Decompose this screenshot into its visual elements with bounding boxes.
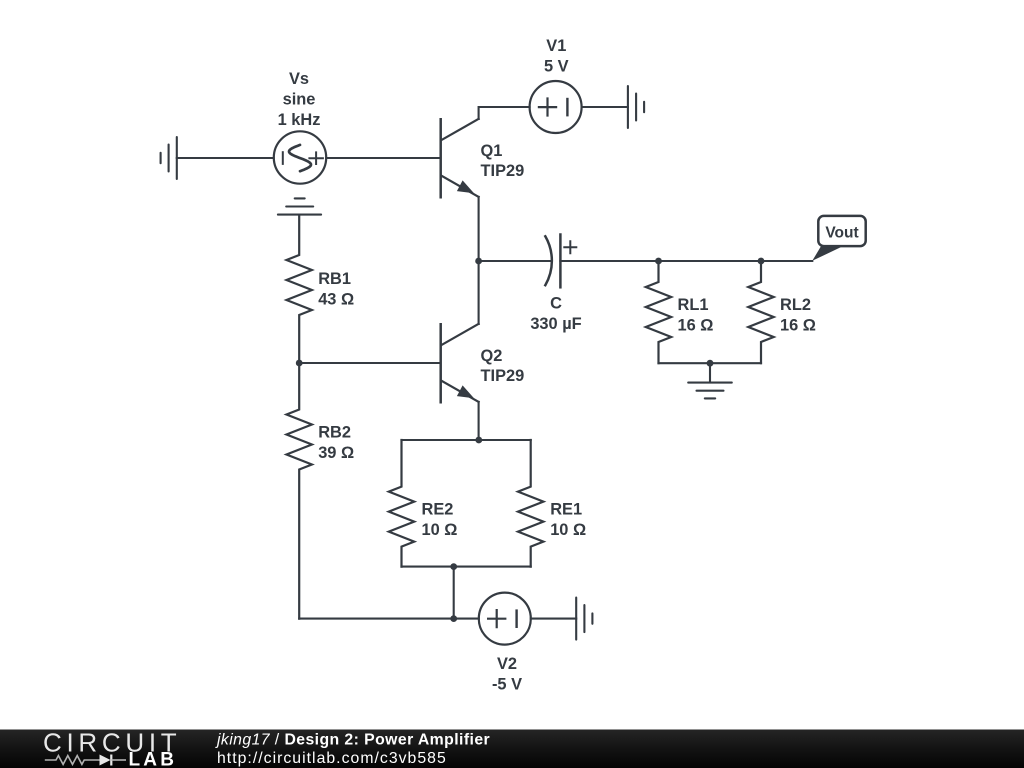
label Q2 / TIP29 — [481, 347, 525, 385]
wire Q1 collector to V1 — [479, 107, 530, 119]
wire ground G1 to Vs — [177, 157, 274, 159]
svg-text:http://circuitlab.com/c3vb585: http://circuitlab.com/c3vb585 — [217, 750, 447, 767]
svg-text:330 µF: 330 µF — [530, 315, 581, 333]
voltage source V2 (battery) — [479, 593, 531, 645]
node C junction (RL2 top) — [758, 258, 765, 265]
ground G1 (input) — [161, 137, 177, 179]
svg-text:39 Ω: 39 Ω — [318, 444, 354, 462]
wire V2 to ground G5 — [531, 618, 576, 620]
wire RL1-RL2 bottom rail — [659, 362, 762, 364]
svg-text:V1: V1 — [546, 37, 566, 55]
wire node G to bottom rail — [453, 567, 455, 619]
label V1 / 5 V — [544, 37, 569, 75]
svg-text:Vs: Vs — [289, 70, 309, 88]
svg-text:C: C — [550, 295, 562, 313]
svg-text:jking17 / Design 2: Power Ampl: jking17 / Design 2: Power Amplifier — [215, 732, 490, 749]
node B junction (RL1 top) — [655, 258, 662, 265]
svg-text:5 V: 5 V — [544, 57, 569, 75]
svg-text:16 Ω: 16 Ω — [780, 316, 816, 334]
node G junction (RE bottom) — [450, 563, 457, 570]
wire node E to Q2 base — [299, 362, 440, 364]
label RL2 / 16 ohm — [780, 296, 816, 334]
node D junction (RL bottom) — [707, 360, 714, 367]
footer title text — [215, 732, 490, 767]
svg-text:10 Ω: 10 Ω — [550, 521, 586, 539]
svg-text:LAB: LAB — [129, 750, 178, 768]
label RB2 / 39 ohm — [318, 423, 354, 461]
svg-text:16 Ω: 16 Ω — [678, 316, 714, 334]
resistor RL2 — [748, 261, 773, 363]
svg-text:1 kHz: 1 kHz — [278, 111, 321, 129]
svg-text:RL2: RL2 — [780, 296, 811, 314]
node H junction (bottom rail) — [450, 615, 457, 622]
voltage source V1 (battery) — [530, 81, 582, 133]
svg-text:V2: V2 — [497, 655, 517, 673]
capacitor C (polarized) — [545, 235, 576, 288]
resistor RE2 — [389, 440, 414, 567]
wire RE top rail — [402, 439, 531, 441]
svg-text:-5 V: -5 V — [492, 676, 522, 694]
node F junction (RE top) — [475, 437, 482, 444]
wire Q1 emitter to node A — [478, 197, 480, 261]
label RB1 / 43 ohm — [318, 270, 354, 308]
svg-text:10 Ω: 10 Ω — [422, 521, 458, 539]
label Q1 / TIP29 — [481, 142, 525, 180]
svg-text:TIP29: TIP29 — [481, 367, 525, 385]
svg-text:RL1: RL1 — [678, 296, 709, 314]
wire bottom rail to V2 — [299, 618, 479, 620]
svg-text:RB1: RB1 — [318, 270, 351, 288]
resistor RL1 — [646, 261, 671, 363]
wire V1 to ground G2 — [582, 106, 628, 108]
node A junction — [475, 258, 482, 265]
wire Q2 emitter to node F — [478, 402, 480, 440]
resistor RB2 — [287, 363, 312, 619]
label V2 / -5 V — [492, 655, 522, 693]
svg-text:Q1: Q1 — [481, 142, 503, 160]
wire C to Vout flag — [560, 260, 812, 262]
label RE2 / 10 ohm — [422, 501, 458, 539]
label RL1 / 16 ohm — [678, 296, 714, 334]
ground G3 (below RL) — [688, 363, 732, 398]
ground G4 (below Vs, flipped) — [278, 198, 321, 214]
wire node A to capacitor C — [479, 260, 551, 262]
svg-text:RE1: RE1 — [550, 501, 582, 519]
label Vs / sine / 1 kHz — [278, 70, 321, 129]
logo CIRCUITLAB — [43, 727, 181, 768]
svg-text:TIP29: TIP29 — [481, 162, 525, 180]
resistor RE1 — [518, 440, 543, 567]
svg-text:Q2: Q2 — [481, 347, 503, 365]
svg-text:RE2: RE2 — [422, 501, 454, 519]
label C / 330 uF — [530, 295, 581, 333]
flag Vout — [812, 216, 865, 261]
transistor Q1 — [441, 119, 479, 197]
voltage source Vs (sine) — [274, 131, 326, 183]
label RE1 / 10 ohm — [550, 501, 586, 539]
svg-text:RB2: RB2 — [318, 423, 351, 441]
resistor RB1 — [287, 215, 312, 363]
wire Vs to Q1 base — [326, 157, 440, 159]
svg-text:Vout: Vout — [825, 224, 858, 241]
wire Q2 collector to node A — [478, 261, 480, 324]
ground G5 (right of V2) — [576, 598, 592, 640]
wire RE bottom rail — [402, 566, 531, 568]
svg-text:sine: sine — [283, 90, 316, 108]
ground G2 (top right) — [628, 86, 644, 128]
svg-text:43 Ω: 43 Ω — [318, 290, 354, 308]
node E junction (RB1/RB2/base) — [296, 360, 303, 367]
transistor Q2 — [441, 324, 479, 402]
